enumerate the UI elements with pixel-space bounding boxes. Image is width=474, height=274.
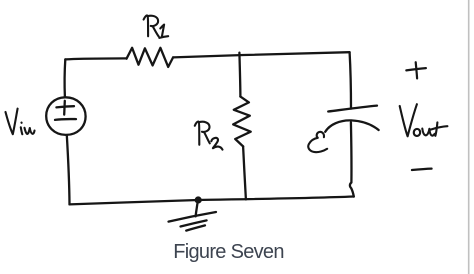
source plus sign: [56, 101, 74, 115]
source minus sign: [55, 118, 76, 121]
label plus (output): [406, 62, 426, 78]
capacitor C bottom plate (arc): [325, 120, 378, 131]
label C: [308, 132, 327, 152]
label Vout: [400, 104, 448, 136]
wire left-top vertical (source top to top-left corner): [63, 59, 66, 97]
caption Figure Seven: [0, 241, 457, 264]
wire R1 right lead to top-right corner: [173, 52, 350, 57]
wire top-left corner to R1 left lead: [65, 58, 126, 59]
border line right: [468, 0, 470, 274]
wire R2 bottom lead: [243, 146, 246, 199]
ground: [196, 204, 198, 217]
wire middle vertical (top wire to R2 top): [239, 53, 240, 97]
capacitor C top plate: [328, 106, 377, 112]
wire capacitor bottom lead: [350, 122, 354, 196]
resistor R2: [233, 97, 251, 147]
wire right vertical (top-right corner to capacitor top): [350, 52, 351, 108]
label Vin: [6, 109, 35, 135]
wire bottom (left corner to right corner): [70, 197, 354, 205]
node junction dot: [195, 196, 202, 203]
resistor R1: [127, 48, 174, 67]
label R2: [195, 122, 223, 150]
wire left-bottom vertical (source bottom to bottom-left corner): [67, 135, 70, 204]
label R1: [144, 15, 169, 37]
label minus (output): [412, 169, 432, 170]
voltage source V1 circle: [46, 97, 85, 135]
